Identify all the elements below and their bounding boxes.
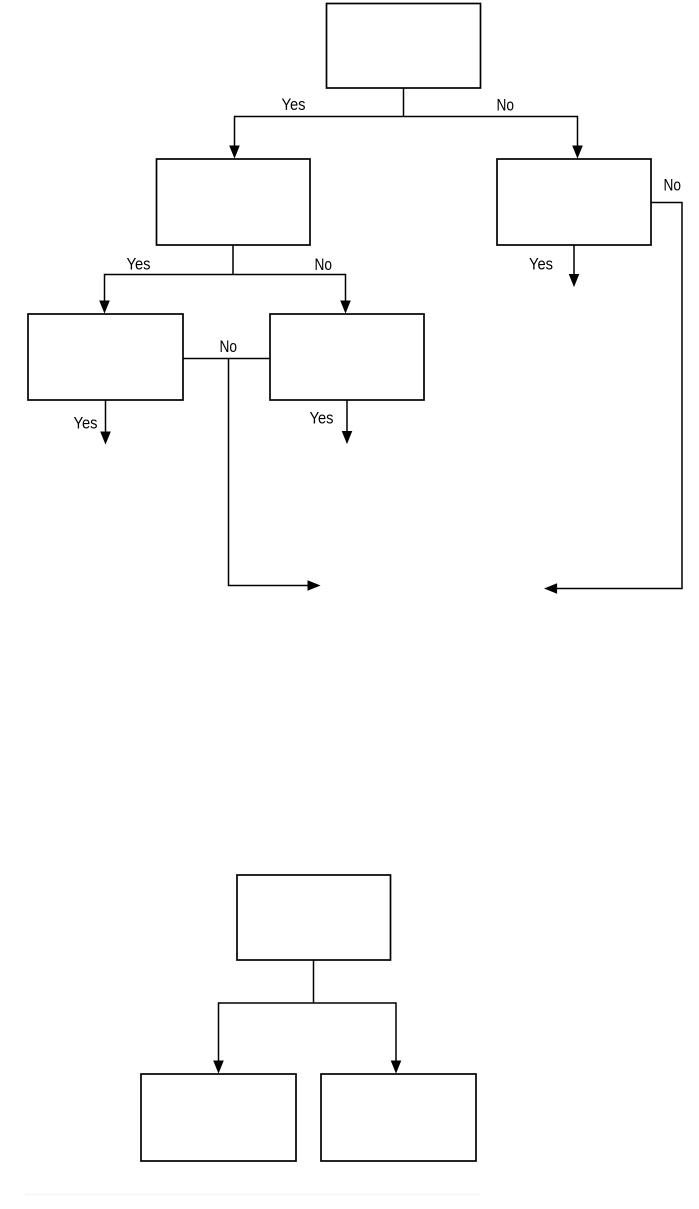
label No (connector between D and E) xyxy=(220,337,238,356)
arrowhead right at end of long drop xyxy=(308,580,321,591)
svg-text:Yes: Yes xyxy=(529,255,553,274)
arrowhead into box H xyxy=(391,1061,402,1074)
wire branch bar under box F xyxy=(219,1002,397,1004)
wire from box B bottom to branch bar xyxy=(232,245,234,275)
svg-text:Yes: Yes xyxy=(74,414,98,433)
svg-text:No: No xyxy=(497,96,515,115)
arrowhead into box E xyxy=(340,301,351,314)
box B (left decision box, level 2) xyxy=(157,159,311,245)
label Yes (left branch of box A) xyxy=(282,95,306,114)
arrowhead under box E xyxy=(342,431,353,444)
box D (left decision box, level 3) xyxy=(28,314,183,400)
faint page-break line at bottom xyxy=(25,1194,480,1196)
svg-text:Yes: Yes xyxy=(282,95,306,114)
wire branch bar under box B xyxy=(105,274,346,276)
arrowhead under box C xyxy=(569,274,580,287)
wire down-left to box G xyxy=(218,1002,220,1061)
arrowhead into box G xyxy=(213,1061,224,1074)
label No (right branch of box B) xyxy=(315,255,333,274)
wire long drop from D-E connector xyxy=(229,359,309,586)
arrowhead into box D xyxy=(99,301,110,314)
svg-text:Yes: Yes xyxy=(310,409,334,428)
wire connector between box D and box E xyxy=(183,358,270,360)
label No (right of box C) xyxy=(664,176,682,195)
box G (bottom-left box, tree 2) xyxy=(141,1074,296,1161)
box A (top decision box, tree 1) xyxy=(327,4,481,89)
label Yes (under box D) xyxy=(74,414,98,433)
arrowhead left at end of no-elbow xyxy=(544,583,557,594)
arrowhead under box D xyxy=(100,432,111,445)
label Yes (left branch of box B) xyxy=(127,255,151,274)
wire down-right to box E xyxy=(345,274,347,302)
wire branch bar under box A xyxy=(235,116,578,118)
wire yes-arrow under box E xyxy=(346,400,348,432)
box H (bottom-right box, tree 2) xyxy=(321,1074,476,1161)
wire no-elbow from box C right side xyxy=(557,203,683,589)
label No (right branch of box A) xyxy=(497,96,515,115)
box E (right decision box, level 3) xyxy=(270,314,424,400)
wire down-left to box D xyxy=(104,274,106,302)
wire down-right to box H xyxy=(395,1002,397,1061)
svg-text:No: No xyxy=(664,176,682,195)
svg-text:No: No xyxy=(315,255,333,274)
wire yes-arrow under box C xyxy=(573,245,575,275)
arrowhead into box C xyxy=(572,146,583,159)
wire yes-arrow under box D xyxy=(105,400,107,433)
arrowhead into box B xyxy=(229,146,240,159)
wire from box A bottom to branch bar xyxy=(403,88,405,117)
wire down-left to box B xyxy=(234,116,236,147)
wire down-right to box C xyxy=(577,116,579,147)
wire from box F bottom to branch bar xyxy=(313,960,315,1003)
svg-text:No: No xyxy=(220,337,238,356)
box F (top box, tree 2) xyxy=(237,875,391,960)
box C (right decision box, level 2) xyxy=(497,159,651,245)
label Yes (under box E) xyxy=(310,409,334,428)
svg-text:Yes: Yes xyxy=(127,255,151,274)
label Yes (under box C) xyxy=(529,255,553,274)
